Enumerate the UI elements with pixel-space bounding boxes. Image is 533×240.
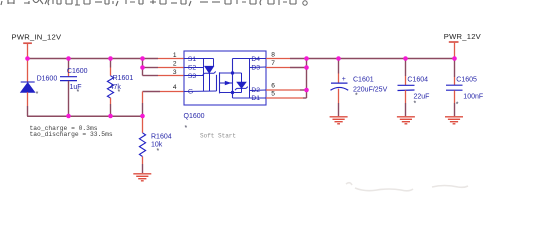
- svg-text:220uF/25V: 220uF/25V: [353, 86, 388, 93]
- wire: top bus left section: [28, 58, 159, 60]
- capacitor C1600: [68, 59, 70, 71]
- svg-text:1: 1: [173, 52, 177, 59]
- ground (C1604): [397, 117, 415, 124]
- svg-text:Q1600: Q1600: [184, 113, 205, 120]
- faint watermark: [346, 183, 468, 191]
- node: pin8/vertical junction: [304, 56, 309, 61]
- node: R1601 top: [108, 56, 113, 61]
- capacitor C1604: [405, 59, 407, 77]
- svg-text:*: *: [118, 89, 121, 96]
- svg-text:8: 8: [271, 51, 275, 58]
- op IC Q1600 body box: [184, 51, 266, 105]
- svg-text:*: *: [36, 91, 39, 98]
- svg-text:*: *: [414, 101, 417, 108]
- wire: power drop PWR_12V: [454, 43, 456, 59]
- node: source tap junction: [231, 91, 234, 94]
- node: PWR_12V junction: [452, 56, 457, 61]
- resistor R1601: [110, 59, 112, 68]
- cut-off caption text row: [1, 0, 307, 6]
- capacitor C1601 (polarized): [338, 59, 340, 74]
- svg-text:7: 7: [271, 60, 275, 67]
- node: pin7 tee: [304, 65, 309, 70]
- wire: pin 4 (gate) stub: [143, 91, 161, 93]
- wire: pin 3 stub: [143, 75, 159, 77]
- node: C1600 top: [66, 56, 71, 61]
- svg-text:D1: D1: [251, 95, 260, 102]
- svg-text:PWR_12V: PWR_12V: [444, 32, 482, 41]
- svg-text:*: *: [355, 93, 358, 100]
- node: pin6 tee: [304, 88, 309, 93]
- svg-text:S1: S1: [188, 56, 197, 63]
- svg-text:2: 2: [173, 60, 177, 67]
- ground (R1604): [133, 174, 151, 181]
- ground (C1601): [330, 117, 348, 124]
- transistor Q1600 internal MOSFET: [217, 59, 242, 99]
- wire: D1600 bottom lead: [27, 92, 29, 106]
- svg-text:S2: S2: [188, 65, 197, 72]
- svg-text:D3: D3: [251, 65, 260, 72]
- svg-text:R1604: R1604: [151, 133, 172, 140]
- wire: pin 5 stub: [266, 97, 303, 99]
- svg-text:*: *: [185, 125, 188, 132]
- svg-text:Soft Start: Soft Start: [200, 133, 236, 140]
- svg-text:+: +: [342, 76, 346, 83]
- node: R1601 bottom: [108, 114, 113, 119]
- svg-text:22uF: 22uF: [414, 93, 430, 100]
- wire: drain collector vertical: [306, 59, 308, 99]
- IC internal: drain tie vertical and D row leads: [233, 59, 267, 99]
- IC internal: gate row lead: [184, 90, 217, 93]
- node: drain tap junction: [231, 71, 234, 74]
- ground (C1605): [445, 117, 463, 124]
- svg-text:C1600: C1600: [67, 68, 88, 75]
- node: C1601 top: [336, 56, 341, 61]
- svg-text:*: *: [77, 89, 80, 96]
- svg-text:100nF: 100nF: [463, 94, 483, 101]
- svg-text:6: 6: [271, 82, 275, 89]
- svg-text:3: 3: [173, 69, 177, 76]
- wire: power drop to top bus: [27, 44, 29, 59]
- svg-text:D1600: D1600: [37, 75, 58, 82]
- svg-text:S3: S3: [188, 73, 197, 80]
- wire: bottom bus: [27, 115, 142, 117]
- wire: top bus approach to IC pin 1: [158, 58, 184, 60]
- node junction dots: [25, 56, 457, 118]
- node: C1604 top: [403, 56, 408, 61]
- svg-text:C1601: C1601: [353, 77, 374, 84]
- svg-text:D2: D2: [251, 87, 260, 94]
- svg-text:D4: D4: [251, 56, 260, 63]
- component asterisk marks: [36, 89, 459, 155]
- capacitor C1605: [454, 59, 456, 78]
- node: bus/power junction left: [25, 56, 30, 61]
- svg-text:G: G: [188, 89, 193, 96]
- wire: top bus right section: [307, 58, 455, 60]
- IC internal: S1/S2/S3 row leads: [184, 59, 217, 92]
- resistor R1604: [142, 116, 144, 133]
- svg-text:4: 4: [173, 84, 177, 91]
- svg-text:R1601: R1601: [113, 75, 134, 82]
- node: gate/R1604 junction: [140, 114, 145, 119]
- svg-text:C1605: C1605: [456, 77, 477, 84]
- zener diode (body): [235, 73, 248, 93]
- svg-text:5: 5: [271, 90, 275, 97]
- wire: D1600 top lead: [27, 59, 29, 83]
- wire: pin 6 stub: [266, 89, 300, 91]
- node: S feed top: [140, 56, 145, 61]
- node: pin2 tee: [140, 65, 145, 70]
- wire: gate feed vertical to bottom bus: [142, 92, 144, 104]
- wire: pin 8 stub to junction: [266, 58, 290, 60]
- wire: pin 7 stub: [266, 67, 290, 69]
- wire: pin 2 stub: [143, 67, 159, 69]
- diode D1600: [21, 82, 35, 92]
- zener diode (gate-source): [203, 66, 216, 91]
- IC internal: source tie vertical: [203, 59, 205, 92]
- svg-text:C1604: C1604: [407, 76, 428, 83]
- svg-text:tao_discharge = 33.5ms: tao_discharge = 33.5ms: [30, 131, 113, 138]
- svg-text:PWR_IN_12V: PWR_IN_12V: [12, 33, 62, 42]
- IC internal: zener top link: [204, 58, 214, 60]
- svg-text:*: *: [456, 102, 459, 109]
- svg-text:*: *: [157, 148, 160, 155]
- node: C1600 bottom: [66, 114, 71, 119]
- wire: S2/S3 feed vertical: [142, 59, 144, 68]
